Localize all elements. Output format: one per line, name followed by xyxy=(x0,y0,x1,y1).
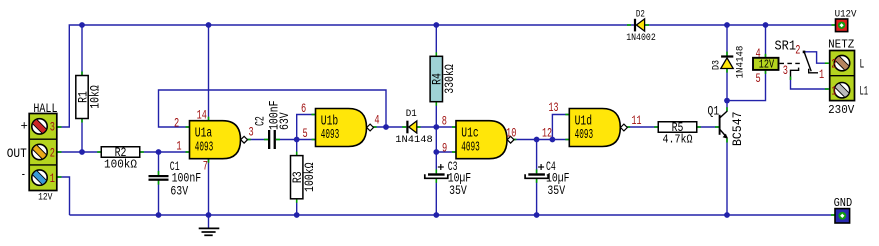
svg-text:7: 7 xyxy=(203,158,208,173)
pin mark SR1 switch pin3 xyxy=(790,77,792,81)
wire R1 top to rail xyxy=(81,25,83,76)
pin mark Q1 base xyxy=(715,126,719,128)
pin mark U1a pin3 xyxy=(247,139,251,141)
pin mark U1a pin2 xyxy=(186,126,190,128)
pin mark D2 cathode xyxy=(627,24,631,26)
wire tie U1d pin12 node to pin13 xyxy=(552,115,569,140)
junction node U1d pin12/13 xyxy=(550,137,556,143)
svg-text:10kΩ: 10kΩ xyxy=(88,85,103,109)
svg-text:3: 3 xyxy=(50,120,55,135)
resistor R1 10k xyxy=(76,76,88,119)
junction R4/+12V rail xyxy=(433,22,439,28)
ground symbol (U1a pin7) xyxy=(199,227,220,229)
wire U1a out to C2 xyxy=(247,139,268,141)
relay SR1 coil 12V xyxy=(753,58,779,70)
ground flag GND xyxy=(835,209,850,223)
pin mark U1a pin14 xyxy=(208,117,210,121)
svg-text:GND: GND xyxy=(834,197,853,210)
svg-text:3: 3 xyxy=(783,63,788,78)
pin mark U12V flag xyxy=(832,24,836,26)
junction node C4 xyxy=(534,137,540,143)
pin mark GND flag xyxy=(831,214,835,216)
wire C2 to node R3/U1b xyxy=(276,139,297,141)
wire node to U1b pin5 xyxy=(297,139,316,141)
wire SR1 coil pin5 to node xyxy=(727,70,766,101)
svg-text:4: 4 xyxy=(374,112,379,127)
wire C4 - to GND rail xyxy=(536,179,538,215)
svg-text:330kΩ: 330kΩ xyxy=(442,64,457,94)
pin mark SR1 coil pin5 xyxy=(765,70,767,74)
junction node feedback/U1b out xyxy=(383,124,389,130)
pin mark C4 minus xyxy=(536,179,538,183)
svg-text:+: + xyxy=(21,118,29,133)
resistor R3 100k xyxy=(291,156,303,199)
pin mark U1b pin4 xyxy=(373,126,377,128)
pin mark NETZ pin2 xyxy=(825,62,829,64)
wire R2 to U1a pin1 xyxy=(140,151,190,153)
svg-text:5: 5 xyxy=(756,71,761,86)
junction node U1c pin9/C3 xyxy=(433,149,439,155)
pin mark D1 anode xyxy=(417,126,421,128)
junction C1/OUT net xyxy=(156,149,162,155)
junction pin7/GND rail xyxy=(206,212,212,218)
wire HALL OUT to R2 xyxy=(58,151,102,153)
pin mark C3 minus xyxy=(435,179,437,183)
capacitor C4 10uF (polarized) xyxy=(528,173,545,175)
wire GND rail xyxy=(70,214,836,216)
svg-text:8: 8 xyxy=(442,113,447,128)
svg-text:1: 1 xyxy=(831,83,836,98)
wire U1b out to D1 cathode xyxy=(373,126,407,128)
pin mark HALL pin1 xyxy=(58,176,62,178)
pin mark HALL pin2 xyxy=(58,151,62,153)
wire C3 - to GND rail xyxy=(435,179,437,215)
NAND gate U1c 4093 xyxy=(456,121,507,159)
pin mark R3 top xyxy=(296,152,298,156)
pin mark C1 top xyxy=(158,171,160,175)
wire D3 anode to node xyxy=(726,69,728,101)
connector HALL (terminal block, pins 3,2,1) xyxy=(29,114,57,191)
svg-text:HALL: HALL xyxy=(33,101,57,116)
NAND gate U1b 4093 xyxy=(316,109,367,147)
pin mark U1c pin8 xyxy=(452,126,456,128)
junction C3/GND rail xyxy=(433,212,439,218)
pin mark C3 plus xyxy=(435,169,437,173)
junction node C2/R3/U1b xyxy=(294,137,300,143)
pin mark C1 bottom xyxy=(158,181,160,185)
svg-text:35V: 35V xyxy=(449,183,467,198)
wire +12V rail left segment and HALL + branch xyxy=(58,25,635,127)
svg-text:NETZ: NETZ xyxy=(828,38,854,51)
svg-text:12: 12 xyxy=(542,126,552,141)
wire +12V rail to SR1 coil pin4 xyxy=(765,25,767,58)
wire R3 bottom to GND rail xyxy=(296,199,298,215)
svg-text:35V: 35V xyxy=(547,183,565,198)
pin mark R5 right xyxy=(697,126,701,128)
relay SR1 mechanical link (dashed) xyxy=(780,62,803,64)
wire node to U1b pin6 xyxy=(297,115,316,140)
wire U1d out to R5 xyxy=(626,126,658,128)
svg-text:4: 4 xyxy=(756,46,761,61)
svg-text:L: L xyxy=(860,56,865,71)
diode D3 1N4148 (vertical) xyxy=(721,55,733,57)
svg-text:10: 10 xyxy=(506,125,516,140)
svg-text:D2: D2 xyxy=(636,10,645,21)
capacitor C1 100nF xyxy=(149,175,169,177)
svg-text:Q1: Q1 xyxy=(708,103,720,118)
svg-text:4093: 4093 xyxy=(461,139,480,155)
wire R1 bottom to OUT net xyxy=(81,119,83,153)
svg-text:11: 11 xyxy=(632,113,642,128)
pin mark D3 cathode xyxy=(726,52,728,56)
svg-text:14: 14 xyxy=(197,107,207,122)
junction SR1 coil/+12V rail xyxy=(763,22,769,28)
pin mark D2 anode xyxy=(645,24,649,26)
wire feedback U1b output to U1a pin2 xyxy=(159,90,387,127)
wire node to Q1 collector xyxy=(726,101,728,112)
junction C4/GND rail xyxy=(534,212,540,218)
pin mark Q1 collector xyxy=(726,107,728,111)
wire C1 bottom xyxy=(158,181,160,215)
pin mark D1 cathode xyxy=(402,126,406,128)
pin mark U1c pin10 xyxy=(512,139,516,141)
wire Q1 emitter to GND rail xyxy=(726,139,728,216)
pin mark U1a pin7 xyxy=(208,159,210,163)
wire R5 to Q1 base xyxy=(697,126,719,128)
pin mark R1 bottom xyxy=(81,119,83,123)
resistor R5 4.7k xyxy=(658,122,697,133)
diode D1 1N4148 xyxy=(406,121,408,134)
svg-text:12V: 12V xyxy=(38,193,52,204)
pin mark R2 right xyxy=(140,151,144,153)
wire +12V rail right segment xyxy=(645,24,836,26)
svg-text:230V: 230V xyxy=(828,104,854,117)
pin mark HALL pin3 xyxy=(58,126,62,128)
junction Q1 emitter/GND rail xyxy=(724,212,730,218)
svg-text:4093: 4093 xyxy=(575,127,594,143)
junction node D3/coil/Q1 collector xyxy=(724,98,730,104)
svg-text:6: 6 xyxy=(301,101,306,116)
pin mark U1c pin9 xyxy=(452,151,456,153)
pin mark C4 plus xyxy=(536,169,538,173)
svg-text:9: 9 xyxy=(442,140,447,155)
pin mark C2 left xyxy=(264,139,268,141)
wire SR1 switch pin3 to NETZ L1 xyxy=(791,77,829,90)
pin mark SR1 coil pin4 xyxy=(765,54,767,58)
pin mark U1d pin13 xyxy=(565,114,569,116)
wire C1 top xyxy=(158,152,160,175)
junction U1a pin14/+12V rail xyxy=(206,22,212,28)
pin mark U1a pin1 xyxy=(186,151,190,153)
pin mark U1b pin5 xyxy=(312,139,316,141)
svg-text:U12V: U12V xyxy=(835,9,857,20)
NAND gate U1d 4093 xyxy=(569,109,620,147)
diode D2 1N4002 xyxy=(634,19,636,32)
svg-text:100kΩ: 100kΩ xyxy=(104,159,137,172)
wire U1c out to U1d pin12 xyxy=(512,139,569,141)
pin mark U1d pin11 xyxy=(626,126,630,128)
capacitor C2 100nF (horizontal) xyxy=(268,130,270,149)
relay SR1 switch contact xyxy=(804,51,811,71)
wire U1a pin14 to +12V rail xyxy=(208,25,210,121)
svg-text:100kΩ: 100kΩ xyxy=(302,162,317,192)
wire +12V rail to D3 cathode xyxy=(726,25,728,56)
svg-text:1N4148: 1N4148 xyxy=(736,46,747,79)
capacitor C3 10uF (polarized) xyxy=(428,173,445,175)
junction R1/OUT net xyxy=(79,149,85,155)
resistor R2 100k xyxy=(101,147,140,158)
svg-text:D3: D3 xyxy=(712,60,723,70)
wire U1a pin7 to ground xyxy=(208,159,210,228)
wire node to R3 top xyxy=(296,140,298,156)
svg-text:1: 1 xyxy=(176,138,181,153)
svg-text:12V: 12V xyxy=(759,59,774,72)
pin mark R4 top xyxy=(435,52,437,56)
pin mark U1b pin6 xyxy=(312,114,316,116)
pin mark R4 bottom xyxy=(435,102,437,106)
svg-text:D1: D1 xyxy=(406,109,417,120)
pin mark R2 left xyxy=(97,151,101,153)
wire R4 top to +12V rail xyxy=(435,25,437,56)
svg-text:1: 1 xyxy=(819,67,824,82)
pin mark R5 left xyxy=(654,126,658,128)
supply flag U12V xyxy=(836,19,848,32)
svg-text:2: 2 xyxy=(831,56,836,71)
wire HALL - to GND rail xyxy=(58,177,70,215)
pin mark C2 right xyxy=(276,139,280,141)
pin mark R3 bottom xyxy=(296,199,298,203)
svg-text:1: 1 xyxy=(50,171,55,186)
junction C1/GND rail xyxy=(156,212,162,218)
transistor Q1 BC547 xyxy=(719,115,721,135)
svg-text:1N4148: 1N4148 xyxy=(395,135,432,146)
svg-text:4.7kΩ: 4.7kΩ xyxy=(663,134,693,147)
svg-text:L1: L1 xyxy=(860,84,869,99)
wire tie U1c pin8 to pin9 xyxy=(436,127,456,152)
svg-text:63V: 63V xyxy=(170,184,188,199)
junction R3/GND rail xyxy=(294,212,300,218)
svg-text:13: 13 xyxy=(549,100,559,115)
wire SR1 switch pin2 to NETZ L xyxy=(804,52,829,63)
svg-text:2: 2 xyxy=(174,115,179,130)
svg-text:5: 5 xyxy=(303,126,308,141)
resistor R4 330k (highlighted) xyxy=(430,56,442,101)
pin mark D3 anode xyxy=(726,69,728,73)
svg-text:2: 2 xyxy=(50,145,55,160)
junction node D1/R4/U1c pin8 xyxy=(433,124,439,130)
svg-text:4093: 4093 xyxy=(321,127,340,143)
svg-text:4093: 4093 xyxy=(195,139,214,155)
svg-text:SR1: SR1 xyxy=(775,38,797,54)
svg-text:63V: 63V xyxy=(277,112,292,130)
svg-text:BC547: BC547 xyxy=(730,112,745,147)
op-amp/NAND gate U1a 4093 xyxy=(190,121,241,159)
pin mark U1d pin12 xyxy=(565,139,569,141)
junction D3/+12V rail xyxy=(724,22,730,28)
pin mark Q1 emitter xyxy=(726,139,728,143)
wire node to C4 + xyxy=(536,140,538,174)
svg-text:OUT: OUT xyxy=(7,146,27,161)
svg-text:-: - xyxy=(21,167,26,182)
wire D1 anode to U1c pin8 xyxy=(417,126,457,128)
svg-text:1N4002: 1N4002 xyxy=(626,33,656,44)
svg-text:2: 2 xyxy=(795,43,800,58)
wire R4 bottom to node xyxy=(435,102,437,127)
pin mark NETZ pin1 xyxy=(825,88,829,90)
connector NETZ (terminal block, pins 2,1) xyxy=(830,51,855,101)
wire node to C3 + xyxy=(435,152,437,173)
pin mark R1 top xyxy=(81,72,83,76)
junction R1/+12V rail xyxy=(79,22,85,28)
